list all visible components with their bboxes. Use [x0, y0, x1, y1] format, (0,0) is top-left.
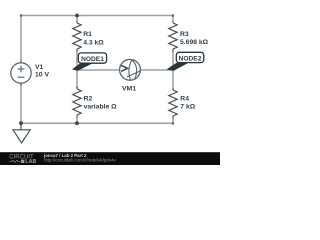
- wire R3 bottom stub: [172, 51, 174, 70]
- wire bottom rail: [21, 122, 173, 124]
- resistor R2: [73, 87, 81, 118]
- corner blob top-left: [20, 14, 22, 16]
- node NODE1 box: [78, 53, 106, 63]
- svg-text:VM1: VM1: [122, 86, 136, 93]
- wire middle rail right (VM1 to NODE2): [140, 69, 173, 71]
- wire top rail: [21, 15, 173, 17]
- svg-text:variable Ω: variable Ω: [84, 103, 118, 110]
- svg-text:R4: R4: [180, 96, 189, 103]
- svg-text:R1: R1: [83, 31, 92, 38]
- wire R1 top stub: [76, 16, 78, 23]
- svg-text:V1: V1: [35, 64, 44, 71]
- svg-text:http://circuitlab.com/c/mde64d: http://circuitlab.com/c/mde64dpdv4v: [44, 157, 117, 162]
- footer logo square: [21, 160, 24, 163]
- wire left branch top (V1 to top rail): [20, 16, 22, 61]
- corner blob bottom-right: [172, 122, 174, 124]
- svg-text:5.698 kΩ: 5.698 kΩ: [180, 39, 209, 46]
- corner blob top-right: [172, 14, 174, 16]
- wire left branch bottom (V1 to bottom rail): [20, 86, 22, 123]
- svg-text:R2: R2: [84, 95, 93, 102]
- voltage source V1: [11, 61, 31, 87]
- wire R4 top stub: [172, 70, 174, 89]
- resistor R3: [169, 22, 177, 52]
- wire R1 bottom stub: [76, 51, 78, 70]
- wire R3 top stub: [172, 16, 174, 23]
- wire middle rail left (NODE1 to VM1): [77, 69, 120, 71]
- svg-text:4.3 kΩ: 4.3 kΩ: [83, 39, 104, 46]
- junction dot at R2 bottom: [75, 121, 79, 125]
- wire R2 bottom stub: [76, 117, 78, 123]
- ground: [13, 123, 30, 143]
- junction dot at ground / bottom rail: [19, 121, 23, 125]
- svg-text:7 kΩ: 7 kΩ: [180, 104, 195, 111]
- node NODE2 flag pointer: [167, 63, 189, 71]
- node NODE2 box: [176, 52, 204, 62]
- wire R4 bottom stub: [172, 118, 174, 123]
- svg-text:NODE1: NODE1: [81, 56, 104, 63]
- svg-text:R3: R3: [180, 31, 189, 38]
- svg-text:NODE2: NODE2: [179, 56, 202, 63]
- node NODE1 flag pointer: [72, 63, 93, 71]
- footer bar: [0, 152, 220, 165]
- junction dot at R1 top: [75, 14, 79, 18]
- svg-text:10 V: 10 V: [35, 71, 49, 78]
- resistor R4: [169, 89, 177, 119]
- svg-text:LAB: LAB: [25, 159, 36, 165]
- resistor R1: [73, 22, 81, 52]
- footer logo squiggle: [10, 160, 21, 162]
- wire R2 top stub: [76, 70, 78, 88]
- voltmeter VM1: [120, 59, 141, 80]
